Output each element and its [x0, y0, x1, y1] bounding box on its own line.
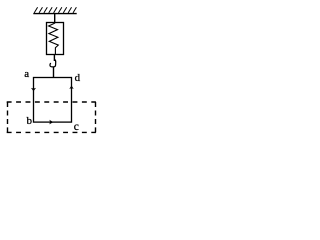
- arrow right on bottom wire: [49, 120, 53, 125]
- dashed field region: right: [95, 102, 97, 132]
- arrow down on left wire: [31, 88, 36, 91]
- svg-text:c: c: [74, 121, 79, 133]
- dashed field region: bottom: [7, 131, 96, 133]
- spring box: [47, 23, 64, 55]
- ceiling line: [33, 13, 76, 15]
- background: [0, 0, 107, 142]
- wire from ceiling to spring box: [54, 14, 56, 23]
- svg-text:a: a: [24, 68, 29, 80]
- svg-text:d: d: [75, 72, 81, 84]
- wire from hook to loop: [53, 67, 55, 78]
- svg-text:b: b: [27, 115, 33, 127]
- arrow up on right wire: [69, 86, 73, 89]
- loop abcd: [34, 78, 72, 123]
- ceiling hatching: [34, 7, 76, 13]
- dashed field region: top: [7, 101, 96, 103]
- hook: [50, 60, 56, 67]
- dashed field region: left: [7, 102, 9, 132]
- wire below box: [53, 55, 55, 62]
- spring zigzag: [49, 23, 59, 55]
